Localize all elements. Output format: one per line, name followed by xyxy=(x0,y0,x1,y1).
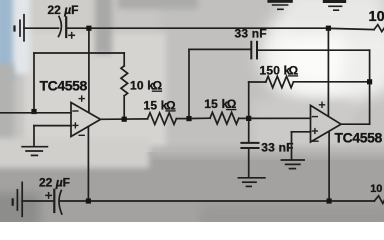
wire V- power U1B down xyxy=(328,131,330,201)
wire V+ to op-amp U1B (vertical power) xyxy=(327,31,329,116)
wire node B up to R6 xyxy=(248,82,250,116)
svg-text:TC4558: TC4558 xyxy=(335,130,383,146)
resistor R7 (cut at right edge) xyxy=(374,196,384,204)
wire top rail right xyxy=(331,28,374,29)
node output U1A / R2 bottom xyxy=(122,117,127,122)
wire V+ to op-amp U1A (vertical power) xyxy=(88,31,90,112)
wire battery B1 to capacitor C1 xyxy=(24,27,59,29)
svg-text:150 k: 150 k xyxy=(260,63,291,77)
wire node B to U1B inverting input xyxy=(251,117,310,119)
label 15 kOhm (R3) xyxy=(144,98,177,112)
wire node A up to capacitor C3 xyxy=(188,49,190,116)
wire V- power U1A down xyxy=(87,127,89,201)
resistor R2 10k (vertical) xyxy=(121,66,128,96)
capacitor C2 22uF (polarized) xyxy=(46,190,62,214)
wire feedback left (U1A) xyxy=(33,53,35,110)
wire 10k top lead xyxy=(123,53,125,66)
wire feedback top (U1A) xyxy=(34,52,124,54)
resistor R6 150k xyxy=(266,76,294,87)
wire C1 to node xyxy=(66,27,89,29)
svg-text:Ω: Ω xyxy=(166,98,176,112)
svg-text:10: 10 xyxy=(369,9,384,25)
wire + input U1B down to ground xyxy=(291,132,293,160)
op-amp U1B xyxy=(311,102,342,142)
ground (U1A non-inverting) xyxy=(22,147,47,156)
battery B1 (top left, cut at edge) xyxy=(15,15,25,41)
node A (between 15k resistors) xyxy=(186,116,191,121)
label 150 kOhm (R6) xyxy=(260,63,299,77)
op-amp U1A xyxy=(71,96,101,136)
wire down to output node U1B xyxy=(369,50,371,82)
node V+ rail junction 1 xyxy=(86,26,91,31)
label 15 kOhm (R4) xyxy=(204,97,237,111)
wire input (left edge) to inverting input U1A xyxy=(0,112,71,114)
node inverting input U1A xyxy=(31,109,36,114)
wire R4 to node B xyxy=(239,117,249,119)
svg-text:10: 10 xyxy=(370,183,382,195)
wire bottom rail right xyxy=(332,200,375,202)
ground (C4) xyxy=(238,178,265,187)
wire C2 to bottom rail xyxy=(60,200,89,202)
capacitor C4 33nF (vertical) xyxy=(241,143,258,148)
node output U1B feedback xyxy=(367,79,372,84)
ground (top, cut) xyxy=(267,0,292,9)
svg-text:Ω: Ω xyxy=(289,63,299,77)
wire C4 to ground xyxy=(248,148,250,177)
ground (U1B non-inverting) xyxy=(281,160,304,169)
wire + input U1B xyxy=(292,131,311,133)
capacitor C1 22uF (polarized) xyxy=(59,17,75,39)
label 10 kOhm (R2) xyxy=(130,79,163,93)
svg-text:22 µF: 22 µF xyxy=(39,176,70,190)
svg-text:15 k: 15 k xyxy=(144,98,168,112)
wire C3 left lead xyxy=(189,48,251,50)
node B (inverting net U1B) xyxy=(246,116,251,121)
resistor R3 15k xyxy=(148,113,177,125)
capacitor C3 33nF xyxy=(251,42,257,59)
wire output U1B xyxy=(341,123,370,125)
svg-text:33 nF: 33 nF xyxy=(261,140,293,154)
wire R6 left lead xyxy=(249,81,266,83)
wire + input down to ground xyxy=(33,126,35,146)
ground (top 2, cut) xyxy=(323,0,346,10)
wire R3 to node A xyxy=(176,118,189,120)
node V- rail junction 2 xyxy=(327,198,332,203)
svg-text:10 k: 10 k xyxy=(130,79,154,93)
wire 10k bottom lead xyxy=(123,96,125,119)
resistor R5 (cut at right edge) xyxy=(374,25,384,32)
svg-text:TC4558: TC4558 xyxy=(40,77,88,93)
wire bottom rail xyxy=(91,200,329,202)
wire output U1A xyxy=(101,118,148,120)
wire R6 right lead xyxy=(293,81,369,83)
wire battery B2 to capacitor C2 xyxy=(22,200,54,202)
svg-text:22 µF: 22 µF xyxy=(48,3,79,17)
wire output U1B up to node xyxy=(369,84,371,124)
svg-text:Ω: Ω xyxy=(153,79,163,93)
wire + input U1A xyxy=(34,125,71,127)
svg-text:Ω: Ω xyxy=(227,97,237,111)
wire top rail xyxy=(91,27,328,29)
svg-text:33 nF: 33 nF xyxy=(235,27,267,41)
svg-text:15 k: 15 k xyxy=(204,97,228,111)
wire node B down to capacitor C4 xyxy=(248,121,250,142)
wire node A to R4 xyxy=(192,117,210,119)
resistor R4 15k xyxy=(210,112,239,124)
node V- rail junction 1 xyxy=(86,198,91,203)
wire C3 right lead xyxy=(257,49,370,51)
node V+ rail junction 2 xyxy=(326,26,331,31)
battery B2 (bottom left, cut at edge) xyxy=(13,182,23,216)
